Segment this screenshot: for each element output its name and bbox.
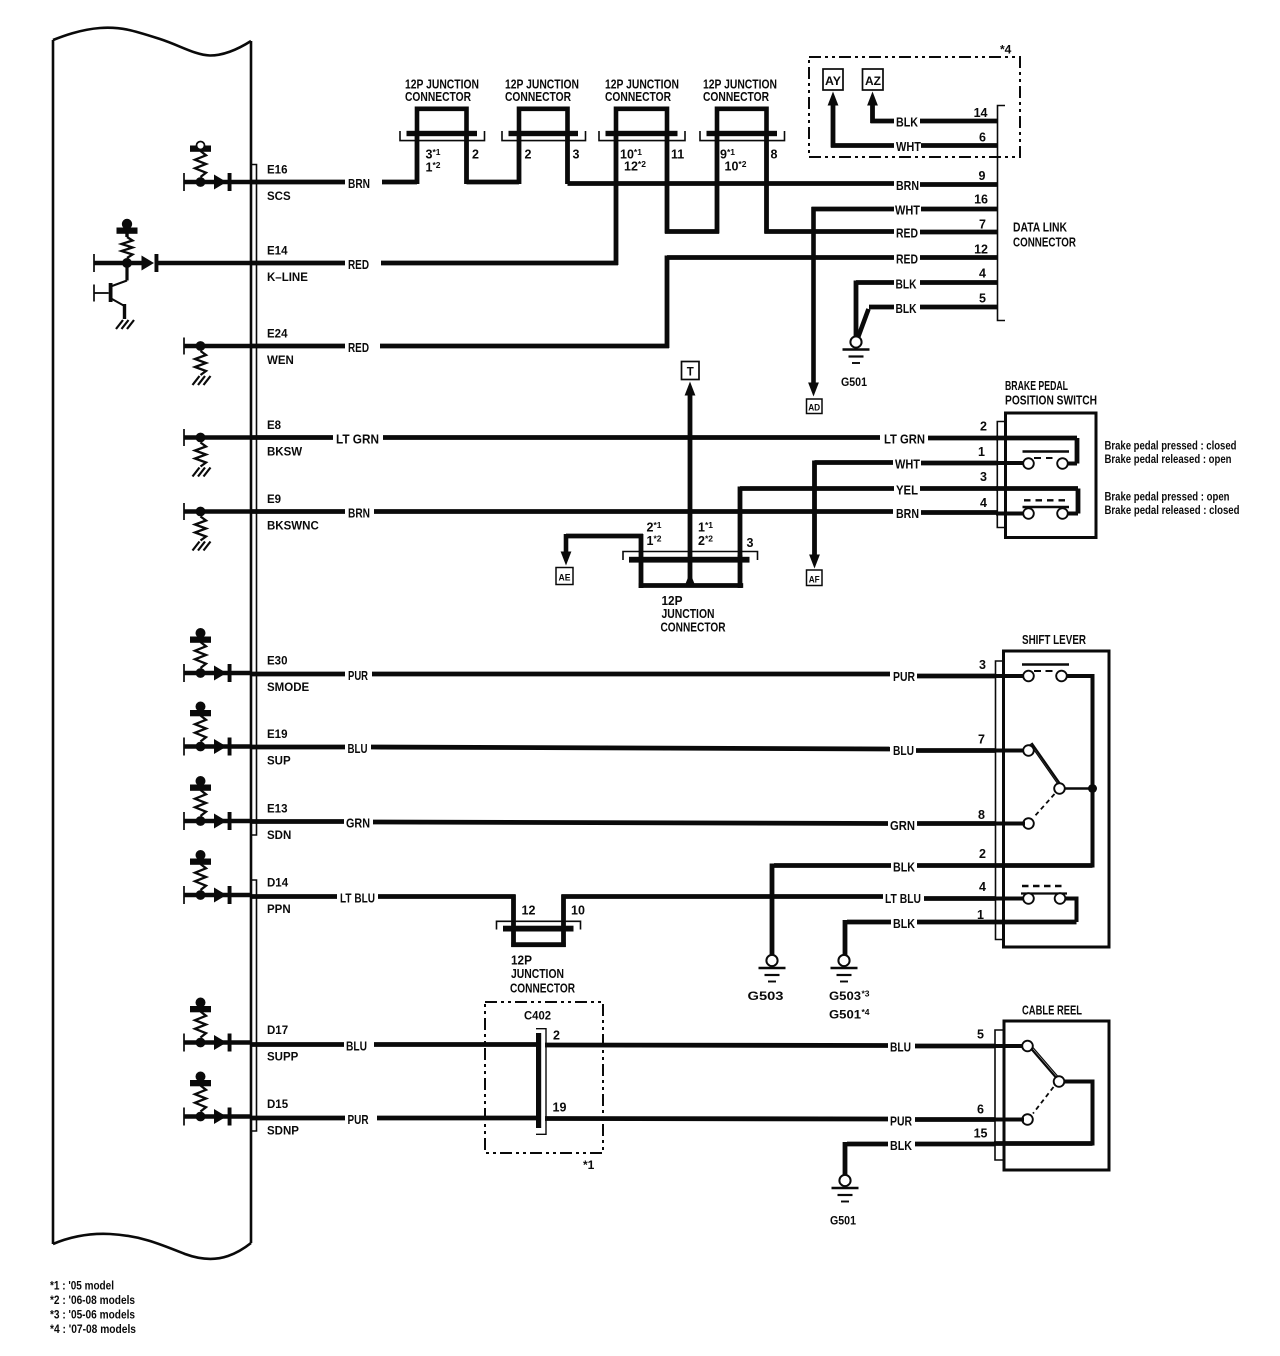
svg-text:*1: *1 [583,1158,595,1172]
internal pull-down resistor [195,443,206,467]
svg-text:6: 6 [979,131,986,145]
output diode [214,739,227,754]
internal wire stub with left tick [183,886,185,904]
svg-text:RED: RED [896,252,918,267]
arrow up into AY [828,92,839,106]
internal pull-up supply bar [190,785,211,791]
svg-text:SUP: SUP [267,756,291,768]
shift lever upper switch bar (closed) [1022,663,1069,666]
internal wire stub with left tick [183,664,185,682]
connector bracket E16-E13 [250,165,257,836]
cable reel right riser [1091,1080,1095,1146]
C6 bottom loop [511,942,565,947]
svg-text:WEN: WEN [267,355,294,367]
wire BLU from C402 to cable reel pin 5 [545,1043,888,1048]
wire BLK from cable reel pin 15 to G501 [847,1142,888,1147]
shift lever common riser [1091,674,1095,868]
svg-text:Brake pedal released : open: Brake pedal released : open [1105,454,1232,466]
svg-text:BLK: BLK [896,115,919,130]
wire BRN to data link connector pin 9 [568,181,895,186]
12P junction connector C3 bus bar [606,131,678,136]
internal junction dot [196,433,206,443]
internal junction dot [196,1112,206,1122]
svg-text:*4: *4 [1000,43,1012,57]
BLK riser to ground G501 [854,281,859,338]
svg-text:RED: RED [348,340,369,355]
svg-text:BKSW: BKSW [267,447,302,459]
svg-text:2: 2 [980,420,987,434]
internal junction dot [196,890,206,900]
internal wire stub with left tick [183,1108,185,1126]
wire RED riser to data link connector pin 12 [665,256,670,349]
12P junction connector C4 bus bar [707,131,778,136]
ground G501 (data link connector) [843,336,870,363]
svg-text:14: 14 [974,106,988,120]
cable reel lever arm [1031,1049,1056,1078]
svg-text:12: 12 [522,904,536,918]
supply terminal cap [196,850,206,860]
internal wire stub with left tick [183,503,185,520]
svg-text:PUR: PUR [348,668,368,683]
12P junction connector C3 shell bracket [599,131,685,141]
output diode [214,814,227,829]
*4 model dash-dot box [809,57,1020,157]
wire E24 RED [251,344,345,349]
internal pull-up supply bar [190,146,211,152]
E30 internal driver circuit [184,628,251,682]
internal pull-down resistor [195,351,206,375]
cable reel pin6 contact [1022,1114,1033,1125]
wire BLK from AZ to data link connector pin 14 [871,119,895,124]
brake switch lower: pin4 internal wire [996,512,1025,516]
cable reel bracket [995,1030,1003,1160]
internal pull-up resistor [195,1012,206,1038]
cable reel pin5 internal stub [994,1044,1024,1048]
shift lever lower switch contact circles [1023,893,1034,904]
svg-text:PUR: PUR [890,1114,912,1129]
internal chassis ground [193,542,200,551]
svg-text:G501: G501 [841,375,867,389]
internal pull-up resistor [195,716,206,742]
internal pull-up supply bar [190,859,211,865]
svg-text:G501: G501 [829,1008,861,1022]
connector view box AE [556,568,573,585]
shift lever rotary contact pin7 [995,749,1025,753]
D17 internal driver circuit [184,998,251,1052]
wire BLK data link connector pin 4 to G501 [856,280,894,285]
svg-text:G503: G503 [748,989,784,1003]
wire E30 PUR to shift lever pin 3 [251,672,345,677]
svg-text:BLK: BLK [893,860,916,875]
svg-text:POSITION SWITCH: POSITION SWITCH [1005,393,1097,408]
internal wire stub with left tick [183,338,185,355]
svg-text:*1 : '05 model: *1 : '05 model [50,1279,114,1293]
C5 shell bracket [623,552,758,561]
output diode [214,666,227,681]
internal pull-up supply bar [190,710,211,716]
shift lever wire from upper switch to common riser [1066,674,1095,678]
svg-text:*4: *4 [862,1007,870,1017]
wire PUR from C402 to cable reel pin 6 [545,1116,888,1121]
brake pedal position switch box [1006,413,1097,538]
svg-text:SDNP: SDNP [267,1126,299,1138]
12P junction connector C4 shell bracket [700,131,785,141]
connector view box T [682,362,700,380]
control module wavy top edge [53,28,251,56]
AE riser and arrow [564,534,569,552]
shift lever pin1 internal wire [995,920,1077,925]
12P junction connector C1 staple loop [417,109,467,133]
svg-text:10: 10 [571,904,585,918]
svg-text:AE: AE [559,573,571,584]
shift lever pin2 internal wire [995,863,1093,868]
shift lever upper switch dashes [1034,670,1056,672]
internal pull-up resistor [195,1086,206,1112]
12P junction connector C1 bus bar [407,131,478,136]
svg-text:BKSWNC: BKSWNC [267,521,319,533]
svg-text:3: 3 [747,536,754,550]
svg-text:CONNECTOR: CONNECTOR [605,89,671,104]
C5 right pin stub [738,555,743,588]
wire BRN between junction connectors [467,180,520,185]
supply terminal cap [196,702,206,712]
internal pull-down resistor [195,517,206,541]
shift lever rotary pivot [1054,783,1065,794]
svg-text:AF: AF [809,575,820,586]
shift lever lower switch: pin4 stub [995,897,1025,901]
E9 internal driver circuit [184,503,251,551]
svg-text:D15: D15 [267,1099,289,1111]
wire E13 GRN to shift lever pin 8 [251,819,344,824]
cable reel pin15 internal wire [994,1141,1093,1146]
internal wire stub with left tick [183,812,185,830]
svg-text:JUNCTION: JUNCTION [511,966,564,981]
brake switch upper contact bar (closed) [1023,450,1070,453]
svg-text:D17: D17 [267,1025,288,1037]
connector view box AY [823,69,843,90]
svg-text:RED: RED [348,257,369,272]
connector bracket D14-D15 [250,880,257,1131]
svg-text:*3: *3 [862,989,870,999]
svg-text:AD: AD [808,403,820,414]
internal junction dot [196,341,206,351]
brake switch upper contact circles [1023,458,1034,469]
svg-text:2: 2 [979,847,986,861]
output diode [214,1035,227,1050]
E14 transistor chassis ground [116,320,134,329]
svg-text:LT GRN: LT GRN [884,432,925,447]
svg-text:PUR: PUR [893,669,915,684]
brake switch upper contact dashes [1034,457,1053,459]
C4 left pin stub [715,135,720,234]
svg-text:CONNECTOR: CONNECTOR [505,89,571,104]
C3 left pin stub down to K-LINE wire [614,135,619,265]
wire E8 LT GRN to brake pedal position switch pin 2 [251,435,333,440]
svg-text:SUPP: SUPP [267,1052,299,1064]
svg-text:4: 4 [979,880,986,894]
svg-text:4: 4 [980,496,987,510]
svg-text:E8: E8 [267,420,282,432]
svg-text:E24: E24 [267,329,288,341]
svg-text:*3 : '05-06 models: *3 : '05-06 models [50,1308,135,1322]
C402 connector bracket [536,1029,546,1135]
svg-text:Brake pedal pressed : open: Brake pedal pressed : open [1105,492,1230,504]
svg-text:E14: E14 [267,246,288,258]
shift lever rotary dashed arm [1034,794,1055,817]
control module body left edge [52,40,55,1244]
svg-text:5: 5 [977,1028,984,1042]
svg-text:11: 11 [671,148,684,162]
data link connector bracket [998,106,1006,321]
wire YEL from junction connector pin 3 to brake pedal position switch pin 3 [740,486,894,491]
svg-text:G501: G501 [830,1214,856,1228]
svg-text:BRAKE PEDAL: BRAKE PEDAL [1005,378,1068,393]
svg-text:AZ: AZ [865,76,881,88]
svg-text:3: 3 [573,148,580,162]
brake switch lower: pin3 internal wire [996,486,1078,491]
wire E19 BLU to shift lever pin 7 [251,745,345,750]
svg-text:BLU: BLU [348,741,368,756]
D14 internal driver circuit [184,850,251,904]
svg-text:1: 1 [978,445,985,459]
wire BLK riser to ground [843,920,848,955]
shift lever pin3 internal stub [995,674,1025,678]
C402 dash-dot box [485,1002,603,1153]
cable reel pivot [1054,1076,1065,1087]
svg-text:2: 2 [525,148,532,162]
svg-text:*2 : '06-08 models: *2 : '06-08 models [50,1293,135,1307]
brake pedal position switch bracket [997,422,1004,528]
brake switch lower contact circles [1023,508,1034,519]
wire D15 PUR to C402 [251,1116,345,1121]
C6 right pin stub [561,895,566,948]
svg-text:LT GRN: LT GRN [336,432,379,447]
control module wavy bottom edge [53,1234,251,1259]
svg-text:BLK: BLK [896,301,917,316]
brake switch lower contact dashed bar (open) [1024,499,1067,501]
svg-text:SCS: SCS [267,191,291,203]
svg-text:2: 2 [472,148,479,162]
wire from AE to junction connector C5 [566,534,643,539]
wire E16 BRN to junction connector [251,180,345,185]
svg-text:CONNECTOR: CONNECTOR [661,620,726,635]
internal pull-up resistor [195,642,206,668]
C6 bus bar [503,926,574,932]
cable reel box [1004,1021,1109,1170]
svg-text:*4 : '07-08 models: *4 : '07-08 models [50,1322,136,1336]
svg-text:PUR: PUR [348,1112,369,1127]
C3 right pin stub [665,135,670,234]
output diode [214,1109,227,1124]
output diode [214,175,227,190]
connector view box AF [807,570,823,586]
C5 left pin stub [639,534,644,588]
svg-text:C402: C402 [524,1009,551,1023]
svg-text:DATA LINK: DATA LINK [1013,220,1067,235]
svg-text:BLU: BLU [346,1039,367,1054]
svg-text:LT BLU: LT BLU [340,891,375,906]
svg-text:E16: E16 [267,165,287,177]
svg-text:K–LINE: K–LINE [267,272,308,284]
shift lever lower switch to pin1 [1065,897,1077,901]
output diode [214,888,227,903]
wire LT BLU to shift lever pin 4 [562,894,884,899]
svg-text:E9: E9 [267,494,281,506]
svg-text:3: 3 [980,470,987,484]
svg-text:CABLE REEL: CABLE REEL [1022,1003,1082,1018]
D15 internal driver circuit [184,1072,251,1126]
svg-text:YEL: YEL [896,483,918,498]
svg-text:BLK: BLK [896,277,917,292]
svg-text:5: 5 [979,292,986,306]
svg-text:15: 15 [974,1127,988,1141]
arrow up into AZ [867,92,878,106]
C1 right pin stub [464,135,469,184]
connector view box AZ [863,69,884,90]
shift lever lower switch dashed bar (open) [1022,885,1065,887]
svg-text:Brake pedal released : closed: Brake pedal released : closed [1105,505,1240,517]
svg-text:7: 7 [978,733,985,747]
internal junction dot [196,507,206,517]
wire BLK riser to ground G501 [843,1142,848,1175]
E8 internal driver circuit [184,429,251,477]
arrow up into T [685,382,696,396]
wire BLK riser to ground G503 [770,864,775,956]
svg-text:SDN: SDN [267,830,291,842]
wire D14 LT BLU to junction connector [251,894,337,899]
svg-text:BLK: BLK [890,1138,913,1153]
control module body right edge [250,41,253,1243]
wire E14 RED to junction connector [251,261,345,266]
cable reel pivot stub to corner [1065,1080,1095,1084]
svg-text:E30: E30 [267,656,287,668]
BLK diagonal to ground G501 [858,309,869,338]
ground G503*3 / G501*4 [831,955,858,982]
shift lever upper switch contact circles [1023,671,1034,682]
svg-text:6: 6 [977,1103,984,1117]
internal pull-up supply bar [190,1080,211,1086]
supply terminal cap [196,628,206,638]
svg-text:WHT: WHT [895,457,920,472]
supply terminal cap [196,1072,206,1082]
wire C3 to C4 [665,229,719,234]
wire riser from junction connector to T [688,394,693,586]
cable reel dashed arm [1033,1087,1054,1114]
internal junction dot [196,668,206,678]
internal junction dot [196,1038,206,1048]
svg-text:BRN: BRN [896,506,919,521]
internal pull-up supply bar [190,1006,211,1012]
svg-text:BLK: BLK [893,916,916,931]
svg-text:PPN: PPN [267,904,291,916]
E16 SCS internal driver circuit [184,142,251,192]
svg-text:CONNECTOR: CONNECTOR [1013,235,1076,250]
internal wire stub with left tick [183,173,185,191]
shift lever box [1004,651,1110,947]
svg-text:WHT: WHT [895,203,920,218]
internal wire stub with left tick [183,1034,185,1052]
brake switch upper: pin1 internal wire [996,461,1025,465]
svg-text:12: 12 [974,243,988,257]
C6 shell bracket [497,921,581,929]
shift lever pivot to riser stub [1065,787,1093,789]
svg-text:16: 16 [974,193,988,207]
svg-text:CONNECTOR: CONNECTOR [405,89,471,104]
C1 left pin stub [415,135,420,184]
svg-text:GRN: GRN [346,816,370,831]
internal wire stub with left tick [183,429,185,446]
svg-text:9: 9 [979,169,986,183]
internal pull-up supply bar [190,637,211,643]
svg-text:Brake pedal pressed : closed: Brake pedal pressed : closed [1105,441,1237,453]
C5 bottom loop [639,583,743,588]
svg-text:BRN: BRN [348,506,370,521]
svg-text:19: 19 [553,1101,567,1115]
C4 right pin stub [764,135,769,234]
C2 left pin stub [517,135,522,184]
shift lever lower switch fixed bar [1021,892,1067,894]
internal chassis ground [193,376,200,385]
svg-text:7: 7 [979,218,986,232]
shift lever bracket [996,661,1003,940]
E24 internal driver circuit [184,338,251,386]
shift lever rotary contact pin8 [1023,818,1034,829]
svg-text:SMODE: SMODE [267,682,310,694]
internal pull-up resistor [195,151,206,177]
ground G501 (cable reel) [832,1175,859,1202]
svg-text:G503: G503 [829,989,861,1003]
wire E9 BRN to brake pedal position switch pin 4 [251,509,345,514]
internal wire stub with left tick [183,738,185,756]
wire BLK from shift lever pin 1 to G503/G501 [847,920,891,925]
12P junction connector C4 staple loop [717,109,767,133]
svg-text:CONNECTOR: CONNECTOR [703,89,769,104]
connector view box AD [807,399,823,414]
C5 bus bar [629,557,750,563]
C6 left pin stub [511,895,516,948]
brake switch upper: pin2 internal wire [996,436,1077,441]
wire D17 BLU to C402 [251,1042,344,1047]
ground G503 [759,955,786,982]
internal pull-up resistor [195,790,206,816]
12P junction connector C2 staple loop [519,109,568,133]
12P junction connector C3 staple loop [616,109,667,133]
internal chassis ground [193,468,200,477]
junction dot on riser [1088,784,1097,793]
svg-text:E19: E19 [267,729,287,741]
internal junction dot [196,816,206,826]
svg-text:1: 1 [977,908,984,922]
internal junction dot [196,177,206,187]
wire BLK from shift lever pin 2 to G503 [774,863,891,868]
E19 internal driver circuit [184,702,251,756]
wire YEL riser [738,487,743,558]
svg-text:8: 8 [978,808,985,822]
svg-text:T: T [687,367,694,379]
supply terminal circle [197,142,205,150]
svg-text:4: 4 [979,267,986,281]
arrow up onto C5 loop [684,573,695,587]
svg-text:SHIFT LEVER: SHIFT LEVER [1022,632,1086,647]
E13 internal driver circuit [184,776,251,830]
wire WHT from AD riser to data link connector pin 16 [812,207,895,212]
12P junction connector C2 bus bar [509,131,579,136]
svg-text:GRN: GRN [890,818,915,833]
wire RED C4 to data link connector pin 7 [765,229,895,234]
internal junction dot [196,742,206,752]
brake switch lower fixed bar [1023,506,1070,508]
svg-text:BRN: BRN [348,176,370,191]
